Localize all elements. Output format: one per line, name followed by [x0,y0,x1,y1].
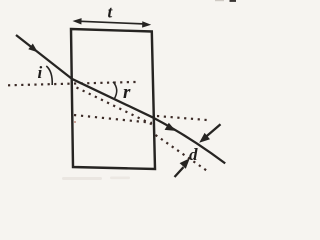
svg-text:i: i [38,63,43,82]
dotted undeviated ray inside slab [77,88,155,126]
svg-text:d: d [189,145,198,164]
faint red dot [74,121,76,123]
svg-text:r: r [123,82,131,103]
smudge marks at top right edge [230,0,237,2]
glass slab rectangle [71,29,155,169]
incident ray [16,35,72,79]
thickness dimension arrow t [73,18,152,28]
lower d arrow [175,158,190,177]
refracted ray inside slab [72,79,154,118]
dotted undeviated ray outside slab [156,135,209,172]
angle r arc [113,82,117,99]
upper d arrow [199,124,220,143]
faint bottom smudges [62,177,102,180]
dotted exit normal outside slab [157,116,207,120]
arrowhead on incident ray [28,44,38,53]
dotted exit normal inside slab [74,115,152,123]
dotted normal at entry [8,82,138,85]
angle i arc [46,66,52,85]
arrowhead on emergent ray [165,123,176,131]
emergent ray [153,118,225,164]
